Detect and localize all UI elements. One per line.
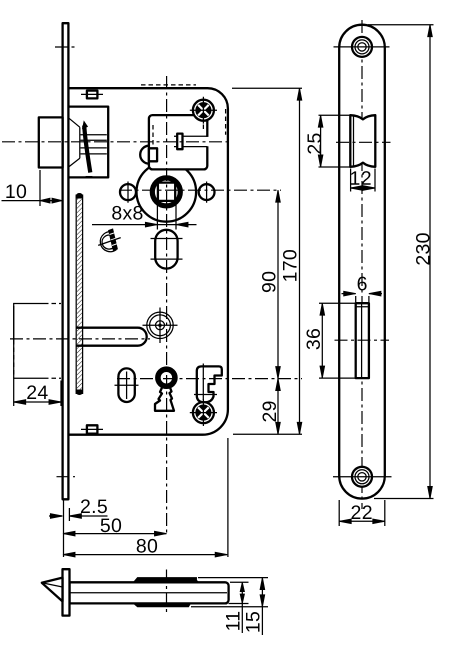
edge screw symbol bottom [87,425,98,433]
oblong slot below spindle [155,230,177,269]
svg-text:170: 170 [280,249,302,282]
latch body mid line [70,592,228,594]
spindle square hole 8x8 [158,183,175,201]
svg-text:15: 15 [242,611,264,633]
faceplate outline [339,25,385,499]
svg-text:22: 22 [351,502,373,524]
dim 230 (plate length) [368,25,434,499]
case raised bar bottom (dark) [134,603,191,606]
dim 15 (case thickness) [191,578,268,607]
latch guide box [69,107,109,178]
dim 2.5 (faceplate thickness) [63,500,65,558]
spindle hub circle [137,162,197,222]
dim 12 (latch window width) [351,169,375,192]
dim 29 (keyhole to case bottom) [277,379,279,435]
latch tip wedge [42,578,63,602]
latch bevel (trapezoid) [69,118,80,167]
snib pivot circle [140,146,158,164]
centerline deadbolt axis [10,338,150,340]
svg-text:29: 29 [259,400,281,422]
svg-text:8x8: 8x8 [111,202,143,224]
dim 50 (backset) [63,533,167,535]
dim 6 (deadbolt window width) [356,296,369,302]
edge screw symbol top [87,91,98,99]
latch window centerline tick [336,141,391,143]
dim 10 (latch protrusion) [39,170,41,206]
hub side hole left [120,184,136,200]
faceplate cross-section [63,569,70,615]
dim 90 (spindle to keyhole) [277,190,279,378]
svg-text:36: 36 [303,328,325,350]
svg-text:6: 6 [357,273,368,295]
plate centerline [361,20,363,509]
pivot boss [147,312,173,338]
keyhole foot [155,387,174,411]
latch window [350,115,375,167]
spring strip [76,195,82,395]
snib pin [177,134,182,150]
case raised bar top (dark) [134,578,199,583]
svg-text:12: 12 [350,168,372,190]
keyhole ring [158,369,175,386]
centerline spindle axis [119,189,281,191]
svg-text:50: 50 [100,515,122,537]
faceplate hole tick top [55,46,76,48]
main vertical centerline [166,76,168,535]
deadbolt lever T-bar [76,328,147,346]
dim 24 (deadbolt throw) [14,306,61,406]
snib left tab [149,148,157,161]
svg-text:10: 10 [5,181,27,203]
dim 36 (deadbolt window height) [319,303,355,378]
faceplate hole tick bottom [57,476,76,478]
svg-text:80: 80 [136,535,158,557]
svg-text:25: 25 [304,132,326,154]
latch bolt edge in window [353,116,355,166]
case screw bottom [193,402,214,423]
dim 22 (plate width) [339,500,385,526]
case screw top [193,100,214,121]
spindle follower ring [152,178,180,206]
hidden dash near right edge [225,109,227,135]
svg-text:24: 24 [26,382,48,404]
centerline latch axis [2,141,230,143]
deadbolt edge in window [356,304,369,377]
faceplate edge view [63,23,69,499]
deadbolt window centerline tick [335,339,390,341]
small oval near keyhole [118,368,134,402]
plate screw top [352,37,372,57]
deadbolt window [356,303,369,378]
dim 25 (latch window height) [319,115,351,167]
deadbolt thrown (dashed outline) [14,304,44,379]
latch lever (dark) [84,126,90,173]
cam tick [98,238,121,246]
dim 80 (case depth) [63,554,227,556]
hidden dashes above top edge [141,84,196,86]
cam hatched bar [109,229,118,250]
ext lines 170/29 [232,88,302,434]
oblong slot ticks [151,239,183,260]
snib slot [174,136,207,146]
snib (latch holder) body [149,115,207,169]
cam detail circle [100,232,116,252]
svg-text:11: 11 [222,611,244,632]
latch bolt head [39,117,63,167]
hub side hole ticks [128,182,207,203]
bottom view centerline [166,570,168,614]
latch body profile [70,582,229,603]
latch spring coil lines [81,135,107,154]
dim 11 (latch body thickness) [229,582,249,603]
snib hidden line [152,125,154,148]
dim 8x8 (spindle square) [157,203,176,230]
ward plate [197,366,222,402]
hub side hole right [199,184,215,200]
plate screw bottom [352,467,372,487]
centerline keyhole axis [117,378,302,380]
svg-text:230: 230 [412,232,434,265]
pivot crosshair [143,308,178,344]
lock case outline [68,88,228,435]
dim 170 (case height) [299,88,301,434]
svg-text:90: 90 [259,271,281,293]
